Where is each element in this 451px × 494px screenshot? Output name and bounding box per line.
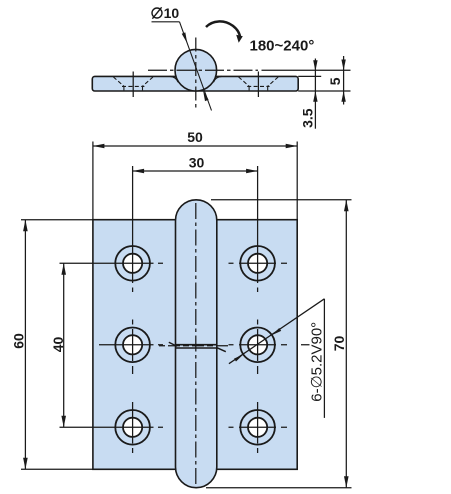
dimension 3.5 arrow bottom: [313, 91, 317, 102]
hole mid-left inner: [123, 335, 142, 354]
dimension 40 arrow bottom: [61, 416, 66, 428]
dimension 30 line: [133, 170, 258, 172]
plate top extension line: [298, 75, 321, 77]
knuckle split tick right: [217, 348, 226, 352]
row2 centerline left: [99, 344, 163, 346]
svg-text:180~240°: 180~240°: [250, 38, 315, 55]
dimension 50 line: [93, 145, 297, 147]
svg-text:40: 40: [50, 337, 66, 353]
dimension 70 extension bottom: [206, 487, 352, 489]
hole bottom-right outer: [240, 410, 275, 445]
side view plate: [92, 76, 298, 91]
front knuckle: [176, 200, 217, 488]
dimension D10 arrow top: [182, 32, 188, 43]
hole mid-right outer: [240, 328, 275, 363]
svg-text:50: 50: [187, 129, 203, 145]
column right centerline (30 extension): [257, 166, 259, 292]
svg-text:3.5: 3.5: [299, 108, 315, 128]
svg-text:6-∅5.2V90°: 6-∅5.2V90°: [308, 322, 325, 402]
fillet right: [214, 76, 222, 82]
dimension D10 text: [152, 5, 179, 21]
dimension 60 text: [11, 333, 27, 349]
dimension 60 extension top: [21, 219, 93, 221]
dimension 70 line: [345, 200, 347, 488]
dimension 70 arrow bottom: [344, 476, 349, 488]
row2 centerline right: [229, 344, 310, 346]
dimension 70 extension top: [211, 199, 352, 201]
hole mid-left outer: [115, 328, 150, 363]
dimension 50 arrow left: [93, 144, 105, 149]
dimension 70 text: [331, 336, 347, 352]
knuckle circle: [175, 49, 217, 91]
dimension 50 extension right: [296, 142, 298, 220]
hole leader line: [229, 299, 325, 364]
bottom-right hole vertical centerline: [257, 402, 259, 453]
dimension 40 line: [63, 263, 65, 427]
dimension 3.5 text: [299, 108, 315, 128]
dimension 60 arrow top: [23, 220, 28, 232]
dimension 60 arrow bottom: [23, 458, 28, 470]
hole leader arrow upper: [272, 328, 281, 335]
dimension 3.5 line: [314, 59, 316, 129]
hole top-right inner: [248, 254, 267, 273]
hole top-right outer: [240, 246, 275, 281]
bottom-left hole vertical centerline: [132, 402, 134, 453]
mid-right hole vertical centerline: [257, 320, 259, 375]
dimension 60 line: [24, 220, 26, 470]
hole leader shoulder: [323, 299, 325, 418]
dimension 50 arrow right: [286, 144, 298, 149]
hole top-left outer: [115, 246, 150, 281]
dimension 50 extension left: [92, 142, 94, 220]
hidden countersink right: [239, 77, 279, 91]
countersink centerline left: [132, 72, 134, 98]
hole top-left inner: [123, 254, 142, 273]
rotation arc arrow: [206, 21, 240, 38]
knuckle centerline: [195, 203, 197, 485]
plate bottom extension line: [298, 90, 350, 92]
hole bottom-left inner: [123, 418, 142, 437]
svg-text:60: 60: [11, 333, 27, 349]
svg-text:10: 10: [164, 5, 180, 21]
dimension D10 arrow bottom: [203, 90, 209, 101]
pin centerline horizontal: [148, 69, 258, 71]
hole note text: [308, 322, 325, 402]
rotation arc arrowhead: [236, 35, 243, 43]
hole bottom-right inner: [248, 418, 267, 437]
dimension 30 arrow left: [133, 169, 145, 174]
dimension 30 arrow right: [246, 169, 258, 174]
dimension D10 line: [180, 22, 212, 111]
dimension 40 text: [50, 337, 66, 353]
svg-text:30: 30: [189, 155, 205, 171]
knuckle split line lower: [176, 347, 217, 349]
knuckle split line upper: [176, 344, 217, 346]
hole bottom-left outer: [115, 410, 150, 445]
fillet left: [170, 76, 178, 82]
mid-left hole vertical centerline: [132, 320, 134, 375]
hidden countersink left: [113, 77, 153, 91]
svg-text:5: 5: [327, 77, 343, 85]
dimension 70 arrow top: [344, 200, 349, 212]
dimension 5 text: [327, 77, 343, 85]
dimension 60 extension bottom: [21, 468, 110, 470]
hole mid-right inner: [248, 335, 267, 354]
middle row centerline across knuckle: [159, 345, 231, 347]
svg-text:70: 70: [331, 336, 347, 352]
pin centerline vertical: [195, 38, 197, 108]
dimension 3.5 arrow top: [313, 60, 317, 71]
dimension 5 line: [343, 56, 345, 105]
row1 centerline right: [229, 262, 288, 264]
dimension 40 arrow top: [61, 263, 66, 275]
knuckle split tick left: [169, 342, 177, 346]
front plate: [93, 220, 297, 470]
column left centerline (30 extension): [132, 166, 134, 292]
dimension D10 underline: [152, 21, 180, 23]
row1 centerline left (40 extension): [60, 262, 164, 264]
row3 centerline left (40 extension): [60, 426, 164, 428]
dimension 5 arrow bottom: [341, 91, 345, 102]
hole leader arrow lower: [234, 355, 243, 362]
countersink centerline right: [257, 72, 259, 98]
row3 centerline right: [229, 426, 288, 428]
dimension 5 arrow top: [341, 60, 345, 71]
